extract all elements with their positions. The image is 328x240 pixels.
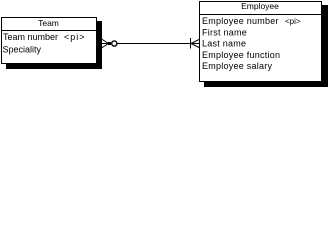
entity Team shadow bbox=[6, 21, 102, 69]
svg-text:<pi>: <pi> bbox=[64, 32, 86, 42]
svg-text:Team: Team bbox=[38, 18, 59, 28]
svg-text:Employee salary: Employee salary bbox=[202, 61, 273, 71]
entity Employee box bbox=[200, 2, 322, 82]
circle (optional) at Team end bbox=[112, 41, 117, 46]
entity Employee shadow bbox=[204, 5, 328, 87]
svg-text:Last name: Last name bbox=[202, 39, 246, 49]
svg-text:Team number: Team number bbox=[3, 32, 58, 42]
svg-text:First name: First name bbox=[202, 27, 247, 37]
entity Team title separator bbox=[1, 30, 96, 31]
crow's foot at Employee end bbox=[191, 40, 199, 48]
entity Employee title separator bbox=[199, 14, 321, 15]
svg-text:Employee function: Employee function bbox=[202, 50, 280, 60]
mandatory bar at Employee end bbox=[190, 38, 192, 49]
svg-text:<pi>: <pi> bbox=[285, 17, 301, 26]
svg-text:Employee number: Employee number bbox=[202, 16, 279, 26]
svg-text:Employee: Employee bbox=[241, 1, 279, 11]
entity Team box bbox=[2, 18, 97, 64]
relationship line bbox=[117, 43, 190, 45]
crow's foot at Team end bbox=[96, 39, 109, 48]
svg-text:Speciality: Speciality bbox=[3, 45, 42, 55]
dot at Team end bbox=[108, 42, 111, 45]
